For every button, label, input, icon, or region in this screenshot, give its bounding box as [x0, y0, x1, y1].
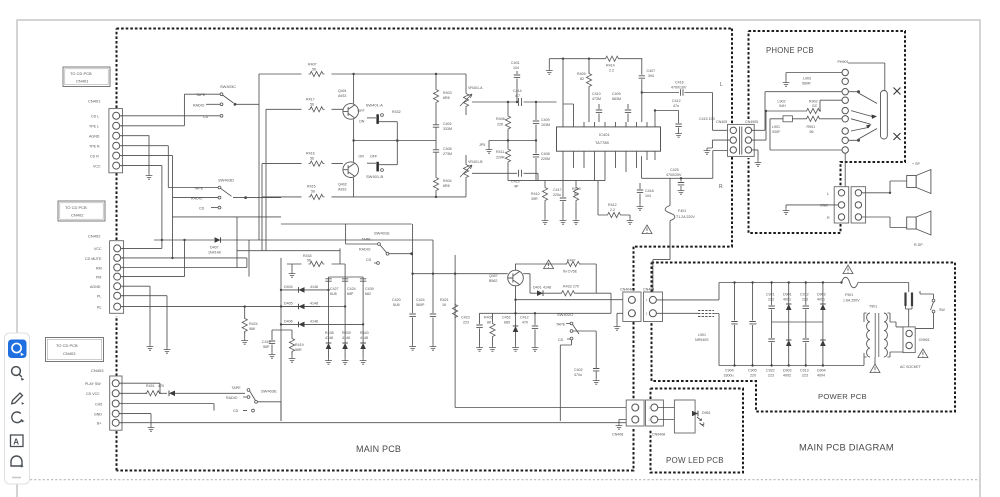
wire cap tops [329, 276, 364, 278]
svg-text:CD: CD [558, 338, 564, 342]
svg-text:56P: 56P [263, 345, 270, 349]
svg-text:SW: SW [939, 308, 945, 312]
svg-text:2.2: 2.2 [610, 208, 615, 212]
svg-text:4001: 4001 [783, 298, 791, 302]
capacitor C413 [472, 173, 538, 180]
PHONE PCB dashed border [749, 31, 906, 233]
wire Q407 collector row [523, 274, 530, 294]
wire CN401 pin6 VCC [120, 166, 162, 249]
svg-text:394: 394 [648, 74, 654, 78]
svg-text:4001: 4001 [817, 298, 825, 302]
svg-text:T901: T901 [869, 305, 877, 309]
wire vertical x340 [339, 248, 341, 264]
svg-text:56: 56 [312, 68, 316, 72]
ground speaker [786, 205, 838, 208]
ground R434 [291, 264, 293, 271]
svg-text:4700/16V: 4700/16V [671, 86, 687, 90]
svg-text:6R8: 6R8 [443, 96, 450, 100]
svg-text:CH5: CH5 [95, 402, 102, 406]
wire vertical x266 [265, 109, 267, 250]
svg-text:TA7788: TA7788 [595, 140, 609, 145]
svg-text:R439: R439 [342, 331, 351, 335]
svg-text:2.2: 2.2 [609, 69, 614, 73]
svg-text:R424: R424 [249, 322, 258, 326]
jack switch contacts [851, 93, 877, 124]
svg-text:R408: R408 [496, 117, 505, 121]
svg-text:R404: R404 [443, 179, 452, 183]
svg-text:56: 56 [310, 103, 314, 107]
svg-text:GND: GND [820, 204, 828, 208]
svg-text:CD: CD [233, 409, 239, 413]
speaker R [907, 211, 931, 235]
toolbar text tool [11, 435, 24, 447]
svg-text:R419: R419 [295, 343, 304, 347]
svg-text:CD: CD [199, 207, 205, 211]
POW LED PCB dashed border [651, 389, 744, 473]
wires CN4905 to phone [752, 130, 766, 160]
svg-text:PM: PM [96, 275, 101, 279]
svg-text:SW403D: SW403D [218, 178, 234, 183]
svg-text:223: 223 [802, 374, 808, 378]
resistor R411 [507, 141, 509, 149]
svg-text:CN402: CN402 [71, 213, 84, 218]
resistor R404 [432, 176, 452, 192]
wire y224 [281, 223, 412, 225]
diode D406 row [281, 323, 363, 325]
wire base Q401 [266, 108, 343, 110]
svg-text:C409: C409 [541, 118, 550, 122]
box TO CD PCB CN403 [46, 338, 104, 362]
ground transformer [874, 357, 876, 364]
svg-text:82: 82 [580, 77, 584, 81]
IC U401 body [557, 127, 661, 151]
wire top rail y58.7 [549, 58, 642, 60]
svg-text:+ SP: + SP [912, 162, 920, 166]
svg-text:4P: 4P [514, 185, 519, 189]
page2 top dotted separator [30, 479, 980, 481]
svg-text:RADIO: RADIO [359, 248, 371, 252]
svg-text:4700/25V: 4700/25V [666, 173, 682, 177]
svg-text:C439: C439 [365, 287, 374, 291]
svg-text:L901: L901 [772, 125, 780, 129]
svg-text:VCC: VCC [93, 164, 101, 168]
IC bottom pin stubs [563, 151, 655, 156]
svg-text:4148: 4148 [310, 302, 318, 306]
svg-text:C416: C416 [675, 81, 684, 85]
svg-text:4148: 4148 [342, 336, 350, 340]
POWER PCB dashed border [652, 263, 956, 412]
svg-text:56R: 56R [295, 348, 302, 352]
warning triangle R447 [544, 260, 554, 269]
box TO CD PCB CN401 [63, 67, 110, 87]
resistor R409 [588, 59, 590, 122]
svg-text:R440: R440 [360, 331, 369, 335]
svg-text:TAPE: TAPE [196, 93, 206, 97]
svg-text:TAPE: TAPE [232, 386, 242, 390]
capacitor C904 [724, 281, 738, 377]
svg-text:R-SP: R-SP [914, 243, 923, 247]
svg-text:RADIO: RADIO [193, 103, 205, 107]
svg-text:R415: R415 [307, 185, 316, 189]
svg-text:PHONE PCB: PHONE PCB [766, 46, 814, 55]
svg-text:TAPE: TAPE [194, 187, 204, 191]
svg-text:C417: C417 [553, 188, 562, 192]
wire CN403 pin4 gnd [120, 414, 152, 425]
svg-text:56: 56 [307, 259, 311, 263]
svg-text:4148: 4148 [310, 285, 318, 289]
svg-text:R417: R417 [306, 98, 315, 102]
wire L output [713, 93, 730, 131]
svg-text:R433: R433 [563, 285, 572, 289]
svg-text:8K: 8K [487, 321, 492, 325]
bridge column C921 [766, 281, 775, 377]
connector pin numbers [121, 114, 738, 425]
svg-text:TO CD PCB: TO CD PCB [70, 71, 92, 76]
switch SW403C [193, 84, 259, 119]
svg-text:C912: C912 [800, 293, 809, 297]
svg-text:R901: R901 [807, 125, 816, 129]
wire caps bus y313.3 [480, 312, 612, 314]
wire CN402 pin rows [121, 240, 320, 347]
fuse F401 [669, 178, 671, 205]
svg-text:CN901: CN901 [919, 338, 930, 342]
wire vertical bus x259 [258, 74, 260, 240]
svg-text:R: R [827, 216, 830, 220]
svg-text:L: L [720, 82, 723, 88]
capacitor C424 column [344, 277, 346, 343]
svg-text:RM: RM [96, 266, 102, 270]
svg-text:CN4905: CN4905 [745, 120, 758, 124]
switch SW403E [226, 386, 281, 421]
svg-text:RL: RL [97, 305, 102, 309]
svg-text:220: 220 [750, 374, 756, 378]
svg-text:MAIN PCB: MAIN PCB [356, 444, 401, 454]
svg-text:CD L: CD L [91, 115, 99, 119]
transistor Q407 [508, 270, 524, 286]
resistor R419 [291, 330, 293, 338]
plug prongs [906, 293, 913, 307]
wire pins top links [563, 59, 574, 122]
svg-text:B+: B+ [97, 422, 102, 426]
ground top rail [548, 59, 550, 68]
svg-text:683M: 683M [612, 97, 621, 101]
svg-text:SW401-B: SW401-B [366, 174, 383, 179]
svg-text:220u: 220u [553, 193, 561, 197]
LED D951 box [658, 400, 711, 433]
jack plug body [881, 91, 888, 140]
IC bottom components rail [508, 180, 605, 182]
svg-text:C412: C412 [672, 99, 681, 103]
svg-text:C921: C921 [766, 293, 775, 297]
svg-text:PL: PL [97, 295, 101, 299]
transistor Q401 [343, 104, 359, 120]
svg-text:A: A [13, 437, 19, 446]
variable resistor VR401-B [460, 155, 483, 197]
toolbar eraser tool [12, 412, 22, 423]
wire vertical x249 [248, 240, 250, 277]
wire Q401 collector to rail [353, 74, 355, 104]
svg-text:JP5: JP5 [479, 143, 485, 147]
svg-text:104: 104 [645, 194, 651, 198]
svg-text:CN402: CN402 [88, 234, 101, 239]
svg-text:C905: C905 [748, 369, 757, 373]
svg-text:SW401-A: SW401-A [366, 103, 383, 108]
svg-text:1.6A 250V: 1.6A 250V [843, 299, 860, 303]
svg-text:333M: 333M [443, 127, 452, 131]
svg-text:C425: C425 [670, 168, 679, 172]
svg-text:473M: 473M [592, 97, 601, 101]
switch SW403D [191, 178, 281, 211]
svg-text:IN CV5E: IN CV5E [563, 270, 578, 274]
svg-text:930F: 930F [772, 130, 781, 134]
svg-text:OFF: OFF [358, 109, 366, 113]
svg-text:C420: C420 [392, 298, 401, 302]
bridge column D901 [783, 281, 792, 377]
svg-text:POWER PCB: POWER PCB [818, 392, 867, 401]
speaker L [907, 170, 931, 194]
svg-text:CN403: CN403 [91, 368, 104, 373]
box TO CD PCB CN402 [58, 201, 105, 221]
svg-text:AGND: AGND [90, 285, 101, 289]
svg-text:CN401: CN401 [76, 79, 89, 84]
svg-text:D401: D401 [533, 286, 542, 290]
wire CN405 pin3 [729, 149, 732, 151]
resistor L903 row1 [786, 73, 842, 81]
svg-text:C418: C418 [645, 189, 654, 193]
connector CN402 [85, 234, 124, 314]
bridge column D903 [817, 281, 826, 377]
svg-text:C408: C408 [541, 152, 550, 156]
wire to speakers [862, 181, 907, 193]
wire CN403 pin5 B+ long [120, 422, 627, 424]
svg-text:220R: 220R [496, 156, 505, 160]
svg-text:CD: CD [366, 258, 372, 262]
warning triangle AC [918, 349, 928, 358]
svg-text:RADIO: RADIO [191, 197, 203, 201]
svg-text:103M: 103M [541, 123, 550, 127]
toolbar pen tool [12, 393, 23, 404]
svg-text:R438: R438 [325, 331, 334, 335]
wire R output [642, 151, 730, 179]
svg-text:R411: R411 [496, 150, 504, 154]
capacitor C407 [641, 59, 643, 122]
svg-text:560R: 560R [802, 82, 811, 86]
wire bridge mid [772, 321, 823, 323]
svg-text:C412: C412 [520, 316, 529, 320]
svg-text:R414: R414 [606, 64, 615, 68]
svg-text:T1.2A 220V: T1.2A 220V [676, 215, 695, 219]
svg-text:1K: 1K [442, 303, 447, 307]
svg-text:R416: R416 [306, 152, 315, 156]
svg-text:CD VCC: CD VCC [86, 392, 100, 396]
wire x262 vertical [261, 164, 263, 197]
svg-text:R902: R902 [809, 100, 818, 104]
wire Q407 emitter [516, 286, 627, 326]
ground AGND CN401 [146, 173, 153, 179]
wire jack row3 to CN4905 [765, 92, 842, 131]
connector CN401 [88, 99, 123, 173]
wire power top bus [719, 282, 842, 284]
svg-text:22K: 22K [497, 123, 504, 127]
diode D407 [215, 237, 221, 243]
wire D407 row y240 [154, 239, 433, 241]
svg-text:5U6: 5U6 [393, 303, 400, 307]
svg-text:R410: R410 [531, 192, 540, 196]
wire CN401 pin2 row [120, 94, 220, 126]
svg-text:SW401E: SW401E [374, 231, 390, 236]
svg-text:C922: C922 [766, 369, 775, 373]
svg-text:RADIO: RADIO [226, 396, 238, 400]
wire Q407 base row [413, 273, 508, 275]
wire vertical x237 [236, 217, 238, 268]
svg-text:D951: D951 [702, 411, 711, 415]
capacitor C405 [430, 146, 452, 157]
wire base Q402 [262, 163, 343, 165]
svg-text:R421: R421 [440, 298, 449, 302]
wire CN401 pin5 row [120, 156, 218, 198]
svg-text:4148: 4148 [360, 336, 368, 340]
svg-text:D404: D404 [284, 285, 293, 289]
svg-text:TPE R: TPE R [89, 144, 100, 148]
svg-text:TPE L: TPE L [89, 125, 99, 129]
svg-text:470: 470 [158, 384, 164, 388]
svg-text:6U8: 6U8 [330, 292, 337, 296]
wire y140.5 gnd [489, 141, 536, 148]
svg-text:Q407: Q407 [489, 274, 498, 278]
diode D452 [169, 391, 175, 397]
svg-text:R432: R432 [392, 110, 401, 114]
svg-text:C423: C423 [461, 316, 470, 320]
svg-text:39R: 39R [531, 197, 538, 201]
svg-text:SW403C: SW403C [220, 84, 236, 89]
variable resistor VR401-A [436, 74, 483, 115]
svg-text:CD: CD [203, 115, 209, 119]
svg-text:68P: 68P [347, 292, 354, 296]
svg-text:SW403E: SW403E [261, 389, 277, 394]
svg-text:+: + [733, 322, 735, 326]
wire mid row y140.5 [354, 140, 436, 142]
svg-text:MAIN PCB DIAGRAM: MAIN PCB DIAGRAM [799, 442, 894, 453]
svg-text:56: 56 [810, 130, 814, 134]
fuse F901 [842, 277, 858, 288]
diode D405 row [281, 306, 345, 308]
bridge column C912 [800, 281, 809, 377]
svg-text:685: 685 [504, 321, 510, 325]
svg-text:D407: D407 [210, 246, 219, 250]
svg-text:TAPE: TAPE [556, 323, 566, 327]
svg-text:4148: 4148 [325, 336, 333, 340]
svg-text:CN408: CN408 [612, 433, 623, 437]
capacitor C418 [639, 183, 641, 200]
svg-text:4.7: 4.7 [515, 94, 520, 98]
svg-text:CN9408: CN9408 [652, 433, 665, 437]
wire verticals to caps [413, 224, 456, 408]
svg-text:470u: 470u [574, 373, 582, 377]
svg-text:AGND: AGND [89, 134, 100, 138]
toolbar selected tool (blue) [8, 340, 27, 359]
svg-text:82: 82 [574, 192, 578, 196]
resistor R413 [575, 181, 577, 186]
svg-text:GC: GC [812, 104, 818, 108]
svg-text:223: 223 [768, 374, 774, 378]
wire top rail y74 [259, 73, 436, 75]
svg-text:223: 223 [768, 298, 774, 302]
svg-text:R409: R409 [577, 72, 586, 76]
svg-text:R: R [719, 184, 723, 190]
svg-text:TO CD PCB: TO CD PCB [56, 343, 78, 348]
svg-text:R407: R407 [308, 63, 317, 67]
wire vertical x262b [237, 197, 262, 251]
svg-text:TAPE: TAPE [362, 238, 372, 242]
wire CN401 pin1 row [120, 115, 220, 117]
svg-text:4148: 4148 [543, 286, 551, 290]
ground CN404 [617, 313, 623, 324]
svg-text:C424: C424 [347, 287, 356, 291]
svg-text:L902: L902 [778, 100, 786, 104]
MAIN PCB dashed border [117, 29, 733, 471]
capacitor C439 column [362, 277, 364, 343]
inductor L901 [695, 311, 719, 366]
wire power bottom bus [719, 365, 864, 367]
svg-text:R447: R447 [567, 259, 576, 263]
wire CN401 pin3 AGND [120, 136, 149, 173]
svg-text:C904: C904 [725, 369, 734, 373]
svg-text:94H: 94H [779, 104, 786, 108]
svg-text:R403: R403 [443, 91, 452, 95]
svg-text:D903: D903 [817, 293, 826, 297]
svg-text:4002: 4002 [783, 374, 791, 378]
IC top pin stubs [563, 122, 655, 127]
capacitor C427 column [328, 277, 330, 343]
svg-text:C402: C402 [574, 368, 583, 372]
svg-text:VCC: VCC [94, 247, 102, 251]
wire right rail x436 [354, 74, 466, 197]
capacitor C410 [598, 104, 600, 122]
wire y250.7 [237, 250, 340, 252]
svg-text:CN404: CN404 [643, 288, 654, 292]
svg-text:POW LED PCB: POW LED PCB [666, 456, 724, 465]
resistor R410 [544, 181, 546, 186]
wire CN403 pin1 [120, 383, 161, 393]
jack pin circles [842, 69, 848, 153]
svg-text:270: 270 [573, 285, 579, 289]
svg-text:C401: C401 [511, 61, 520, 65]
svg-text:VR401-A: VR401-A [468, 86, 483, 90]
svg-text:A933: A933 [338, 94, 346, 98]
resistor R408 [507, 102, 509, 115]
svg-text:PH901: PH901 [838, 60, 849, 64]
svg-text:C427: C427 [330, 287, 339, 291]
svg-text:CD R: CD R [90, 154, 99, 158]
svg-text:CN403: CN403 [63, 351, 76, 356]
svg-text:AC SOCKET: AC SOCKET [900, 365, 922, 369]
warning triangle main [642, 225, 652, 234]
svg-text:R405: R405 [484, 316, 493, 320]
capacitor C402 [430, 121, 452, 132]
svg-text:L901: L901 [698, 333, 706, 337]
svg-text:C407: C407 [647, 69, 656, 73]
svg-text:470: 470 [522, 321, 528, 325]
toolbar more dots [12, 477, 21, 479]
svg-text:ON: ON [359, 155, 365, 159]
connector CN406 pair [612, 400, 665, 437]
svg-text:D904: D904 [817, 369, 826, 373]
svg-text:4148: 4148 [310, 320, 318, 324]
wire CN405 mid pin [707, 140, 730, 148]
svg-text:PLAY SW: PLAY SW [85, 382, 101, 386]
svg-text:C409: C409 [612, 92, 621, 96]
transistor Q402 [343, 162, 359, 178]
